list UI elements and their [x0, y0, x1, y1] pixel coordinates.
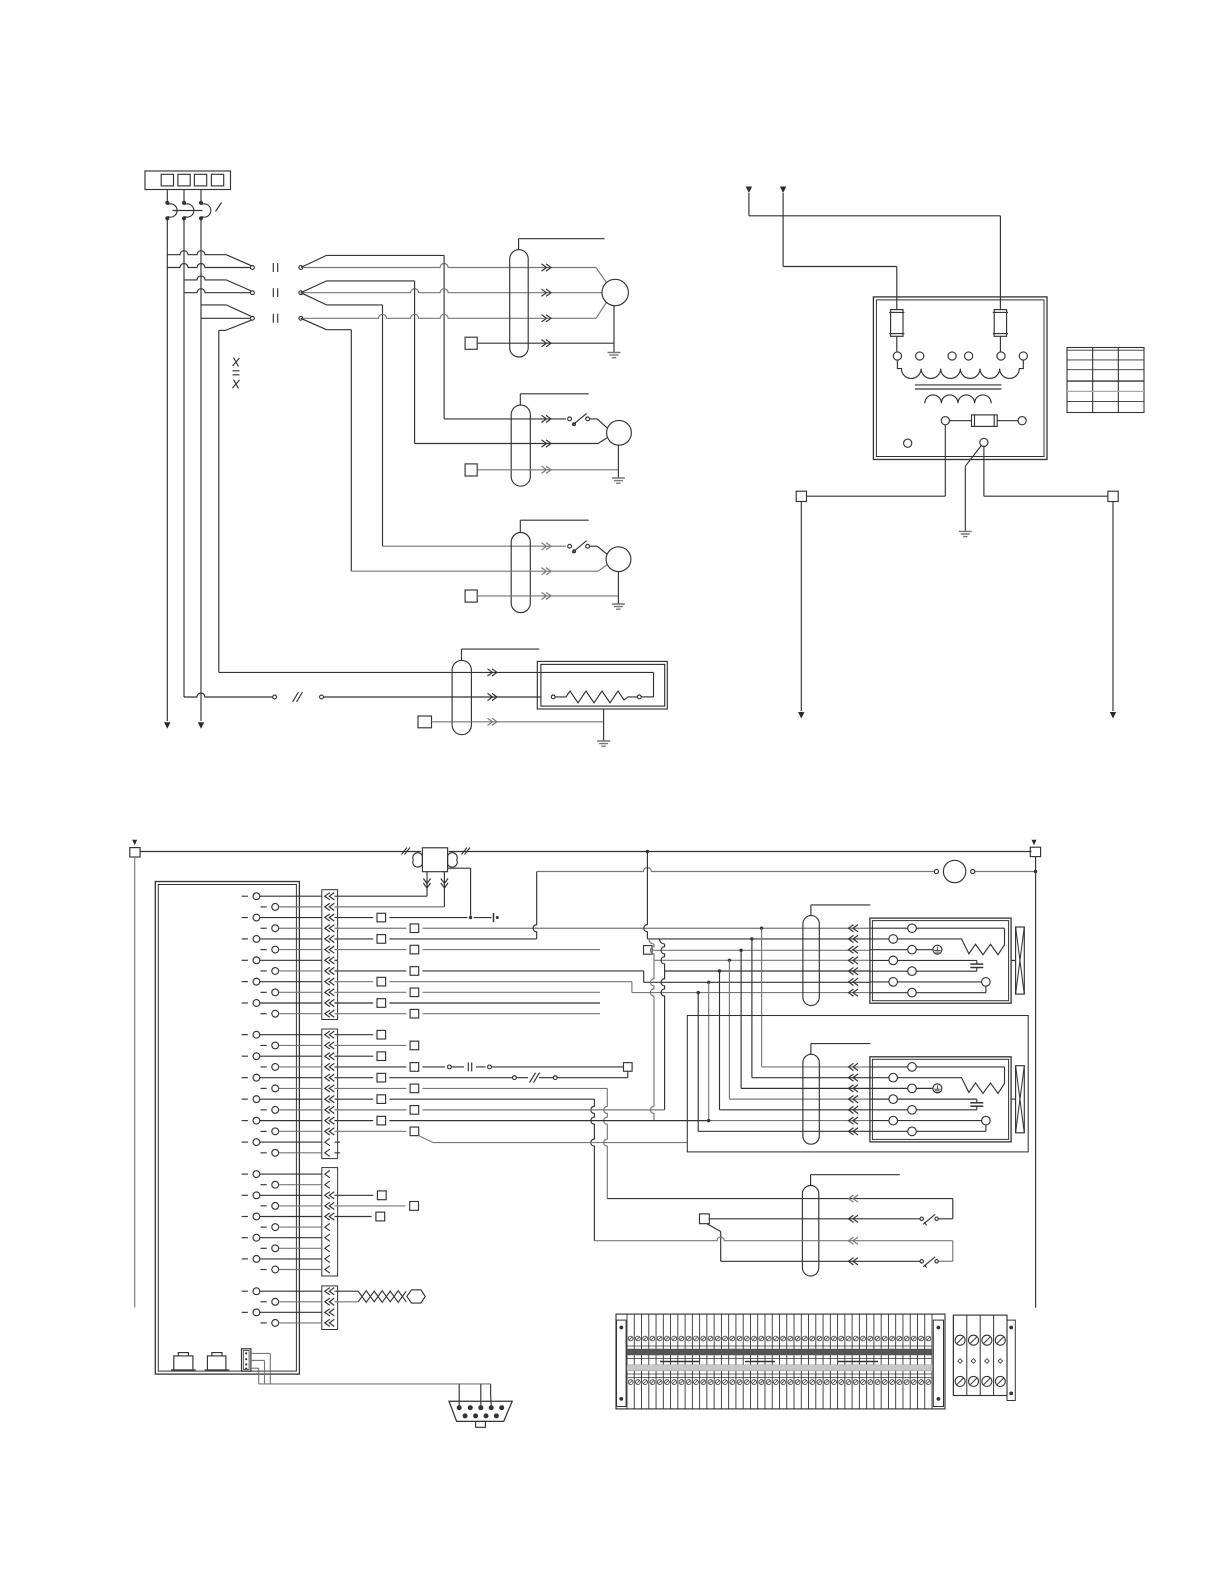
unit2 terminal r3 — [908, 1084, 917, 1093]
unit1 earth terminal — [916, 949, 933, 951]
arrow CN2 pin 12 — [325, 1149, 330, 1156]
shield unit2 — [803, 1054, 819, 1144]
wire CN1-4 to unit1 row1 — [335, 927, 407, 929]
arrow right down — [1110, 712, 1116, 719]
arrow heater line1 — [488, 669, 498, 676]
terminal CN3 pin 1 — [242, 1173, 248, 1175]
terminal CN3 pin 9 — [242, 1258, 248, 1260]
vertical feed motor2 line2 — [414, 281, 416, 444]
wire heater line2 cont — [323, 696, 541, 698]
square on CN2-2 — [335, 1044, 407, 1046]
arrow CN3 pin 2 — [325, 1181, 330, 1188]
shield drain S5 — [810, 1175, 812, 1186]
square on CN3-3 — [335, 1194, 374, 1196]
fuse F1 — [891, 310, 903, 337]
bus break mark 2 — [462, 848, 468, 855]
junction CN1-4 — [760, 927, 763, 930]
wire secondary A down — [944, 425, 946, 496]
terminal CN1 pin 4 — [261, 927, 267, 929]
wire unit1 row5 feed — [659, 939, 664, 944]
unit1 fan — [1016, 927, 1025, 994]
square on CN2-8 — [410, 1106, 419, 1115]
terminal CN2 pin 3 — [242, 1055, 248, 1057]
terminal CN1 pin 5 — [242, 938, 248, 940]
arrow CN3 pin 5 — [325, 1213, 335, 1220]
terminal CN4 pin 3 — [242, 1311, 248, 1313]
secondary terminal B — [1018, 417, 1026, 425]
vertical feed motor3 line1 — [382, 305, 384, 546]
arrow CN2 pin 2 — [325, 1042, 335, 1049]
terminal CN3 pin 10 — [261, 1269, 267, 1271]
arrow unit2 row6 — [849, 1117, 859, 1124]
terminal CN2 pin 6 — [261, 1087, 267, 1089]
unit2 terminal r6 — [889, 1116, 898, 1125]
circuit breaker Q1 pole 1 — [166, 201, 169, 204]
unit2 capacitor — [898, 1098, 977, 1100]
wire heater line1 — [219, 671, 541, 673]
unit2 resistor top wire — [916, 1066, 1004, 1068]
breaker tie bar — [173, 210, 203, 212]
arrow CN2 pin 7 — [325, 1096, 335, 1103]
wire CN1-12 — [335, 1013, 407, 1015]
unit1 terminal r1 — [908, 924, 917, 933]
wire V1 from lamp line — [533, 872, 537, 939]
circuit breaker Q1 pole 2 — [183, 201, 186, 204]
wire doorswitch row3 — [594, 1237, 952, 1241]
secondary terminal A — [941, 417, 949, 425]
ground stem heater — [603, 709, 605, 741]
arrow CN3 pin 3 — [325, 1192, 335, 1199]
wire doorswitch row2 — [709, 1218, 920, 1220]
terminal CN2 pin 12 — [261, 1152, 267, 1154]
arrow CN4 pin 1 — [325, 1288, 335, 1295]
unit2 thermostat — [898, 1120, 982, 1122]
heater box — [537, 661, 667, 709]
arrow CN2 pin 10 — [325, 1128, 335, 1135]
transformer secondary winding — [925, 395, 991, 403]
wire unit2 feed row5 — [719, 971, 721, 1110]
unit2 terminal r4 — [889, 1095, 898, 1104]
left rail — [134, 857, 136, 1307]
transformer primary taps — [893, 352, 901, 360]
arrow filter drop left — [423, 879, 430, 889]
filter drop left — [426, 872, 428, 897]
wire row2 up branch — [301, 281, 327, 293]
arrow CN2 pin 1 — [325, 1031, 335, 1038]
unit1 terminal r4 — [889, 956, 898, 965]
circuit breaker Q1 pole 3 — [200, 201, 203, 204]
motor M3 — [606, 547, 631, 572]
enclosure box unit2 — [687, 1016, 1028, 1152]
wire feed B — [782, 193, 784, 267]
unit1 row stubs — [870, 927, 907, 929]
vertical 654 lower — [650, 960, 654, 1120]
wire doorswitch row1 down — [952, 1199, 954, 1219]
DB9 pins — [457, 1405, 462, 1410]
wire CN1-3 — [335, 917, 374, 919]
connector X1 row1 — [251, 266, 255, 270]
PE wire motor3 — [477, 595, 618, 597]
RJ45 jack 1 — [174, 1356, 193, 1370]
unit2 terminal r5 — [908, 1106, 917, 1115]
arrow left down — [798, 712, 804, 719]
wire CN1-5 — [335, 938, 374, 940]
wire row1 to motor1 — [303, 264, 596, 268]
square on CN1-9 — [377, 977, 386, 986]
arrow unit1 row7 — [849, 989, 859, 996]
arrow motor1 line2 — [542, 289, 552, 296]
terminal CN3 pin 5 — [242, 1216, 248, 1218]
wire CN2-4 remote loop — [335, 1066, 407, 1068]
ground stem motor3 — [617, 572, 619, 604]
terminal CN2 pin 1 — [242, 1034, 248, 1036]
arrow motor1 line1 — [542, 264, 552, 271]
wire CN1-6 — [335, 949, 407, 951]
terminal CN1 pin 12 — [261, 1013, 267, 1015]
terminal CN3 pin 2 — [261, 1184, 267, 1186]
bus drop vertical — [644, 852, 648, 939]
terminal strip jumpers — [660, 1361, 700, 1363]
wire row3 right branch — [301, 318, 327, 329]
arrow doorswitch row3 — [849, 1237, 859, 1244]
PE wire motor1 — [477, 342, 614, 344]
junction unit1 row5 — [718, 969, 721, 972]
arrow motor3 line2 — [542, 568, 552, 575]
arrow CN4 pin 2 — [325, 1298, 335, 1305]
wire to motor2 line2 — [415, 443, 598, 445]
unit2 row stubs — [870, 1066, 907, 1068]
wire to motor3 line2 — [351, 570, 598, 572]
square on CN1-8 — [410, 967, 419, 976]
terminal CN2 pin 5 — [242, 1077, 248, 1079]
arrow unit2 row3 — [849, 1085, 859, 1092]
wire CN4-2 to pair — [335, 1301, 359, 1303]
terminal CN1 pin 10 — [261, 991, 267, 993]
arrow motor2 PE — [542, 466, 552, 473]
square on CN2-5 — [377, 1073, 386, 1082]
arrow CN1 pin 1 — [325, 893, 335, 900]
shield S1 motor1 — [510, 250, 529, 357]
controller box — [155, 882, 299, 1375]
wire TB1 to breaker poles — [166, 190, 168, 202]
terminal CN1 pin 9 — [242, 981, 248, 983]
arrow CN1 pin 9 — [325, 978, 335, 985]
terminal CN2 pin 2 — [261, 1044, 267, 1046]
arrow motor2 line2 — [542, 440, 552, 447]
ground motor1 — [608, 353, 621, 358]
unit2 earth terminal — [916, 1087, 933, 1089]
shield drain heater — [461, 649, 463, 660]
wire unit2 feed row1 — [761, 928, 763, 1067]
shield drain unit2 — [810, 1044, 812, 1055]
terminal CN3 pin 4 — [261, 1205, 267, 1207]
door switch 2 — [920, 1260, 923, 1263]
arrow motor3 line1 — [542, 543, 552, 550]
shield drain unit1 — [810, 905, 812, 916]
wire switch to motor3 — [590, 545, 598, 547]
ground motor3 — [612, 604, 625, 609]
PE square motor3 — [465, 590, 477, 602]
junction unit1 row2 — [750, 937, 753, 940]
twisted pair marker — [358, 1291, 406, 1302]
ground transformer — [959, 531, 972, 536]
junction CN1-3 — [469, 916, 472, 919]
arrow motor3 PE — [542, 592, 552, 599]
vertical CN2-6 down — [604, 1088, 608, 1198]
arrow CN1 pin 7 — [325, 957, 335, 964]
square on CN1-4 — [410, 924, 419, 933]
arrow CN3 pin 1 — [325, 1171, 330, 1178]
square on CN2-6 — [410, 1084, 419, 1093]
shield drain motor3 — [519, 520, 521, 532]
unit1 terminal r2 — [889, 935, 898, 944]
terminal CN3 pin 8 — [261, 1247, 267, 1249]
wire CN2-8 — [335, 1109, 407, 1111]
terminal CN4 pin 1 — [242, 1290, 248, 1292]
tap selection table — [1067, 348, 1144, 413]
terminal strip slats — [626, 1314, 628, 1409]
bus break mark 1 — [402, 848, 408, 855]
unit1 terminal r5 — [908, 967, 917, 976]
wire CN1-3 to earth — [474, 917, 492, 919]
unit2 heating resistor — [898, 1067, 1005, 1094]
unit2 terminal r7 — [908, 1127, 917, 1136]
wire CN4-1 to pair — [335, 1290, 359, 1292]
unit2 fan — [1016, 1066, 1025, 1133]
terminal CN1 pin 1 — [242, 895, 248, 897]
unit1 terminal r7 — [908, 988, 917, 997]
filter drop right — [443, 872, 445, 907]
square on CN2-4 — [410, 1063, 419, 1072]
connector J4 — [242, 1349, 251, 1371]
wire row3 to motor1 — [303, 314, 596, 318]
rail L4 vertical — [218, 330, 220, 672]
square on CN1-10 — [410, 988, 419, 997]
terminal CN1 pin 6 — [261, 949, 267, 951]
arrow heater line2 — [488, 693, 498, 700]
junction unit1 row3 — [739, 949, 742, 952]
indicator lamp — [943, 860, 965, 882]
wire CN2-10 — [335, 1130, 407, 1132]
unit1 capacitor — [898, 959, 977, 961]
arrow CN1 pin 10 — [325, 989, 335, 996]
arrow doorswitch row2 — [849, 1215, 859, 1222]
unit2 terminal r2 — [889, 1073, 898, 1082]
terminal CN2 pin 9 — [242, 1120, 248, 1122]
arrow unit2 row4 — [849, 1096, 859, 1103]
heater wire internal — [541, 671, 654, 673]
connector strip CN4 — [322, 1286, 338, 1330]
arrow CN2 pin 3 — [325, 1053, 335, 1060]
wire row2 direct — [184, 289, 251, 293]
wire CN2-9 to unit2 row6 — [335, 1120, 374, 1122]
wire CN1-8 to unit1 row6 — [335, 970, 407, 972]
lamp circles — [934, 869, 938, 873]
shield S2 motor2 — [511, 405, 530, 486]
terminal block 4-pole — [953, 1315, 1007, 1395]
arrow doorswitch row4 — [849, 1258, 859, 1265]
terminal CN2 pin 8 — [261, 1109, 267, 1111]
wire remote return — [627, 1071, 629, 1077]
vertical feed motor2 line1 — [443, 255, 445, 419]
ground heater — [597, 741, 610, 746]
arrow unit1 row2 — [849, 935, 859, 942]
wire square to row4 — [707, 1224, 721, 1232]
arrow unit1 row1 — [849, 925, 859, 932]
right rail — [1035, 857, 1037, 1308]
arrow CN3 pin 4 — [325, 1202, 335, 1209]
wires J4 to DB9 — [251, 1352, 270, 1354]
shield unit1 — [803, 916, 819, 1006]
terminal CN1 pin 3 — [242, 917, 248, 919]
arrow CN1 pin 5 — [325, 935, 335, 942]
square on CN2-1 — [335, 1034, 374, 1036]
transformer box T1 — [873, 297, 1047, 460]
PE wire motor2 — [477, 469, 618, 471]
arrow filter drop right — [441, 879, 448, 889]
neutral terminal — [980, 438, 988, 446]
shield drain motor1 — [518, 239, 520, 250]
arrow CN2 pin 6 — [325, 1085, 335, 1092]
square on CN1-3 — [377, 913, 386, 922]
PE square motor1 — [465, 337, 477, 349]
motor M2 — [607, 420, 632, 445]
junction CN2-9 — [707, 1119, 710, 1122]
wire row2 to motor1 — [303, 289, 602, 293]
junction unit1 row4 — [728, 959, 731, 962]
arrow CN3 pin 8 — [325, 1245, 330, 1252]
terminal CN3 pin 7 — [242, 1237, 248, 1239]
arrow CN2 pin 9 — [325, 1117, 335, 1124]
arrow CN3 pin 9 — [325, 1255, 330, 1262]
square on CN3-4 — [335, 1205, 406, 1207]
wire neutral down — [983, 447, 985, 497]
terminal strip mid lines — [627, 1345, 932, 1347]
terminal CN2 pin 7 — [242, 1098, 248, 1100]
arrow feed A — [746, 187, 752, 194]
terminal CN1 pin 8 — [261, 970, 267, 972]
arrow heater PE — [488, 718, 498, 725]
wire row1 direct — [167, 264, 250, 268]
arrow motor1 line3 — [542, 315, 552, 322]
wire CN2-7 to doorswitch — [335, 1098, 374, 1100]
wire CN2-6 to doorswitch — [335, 1087, 407, 1089]
terminal CN1 pin 11 — [242, 1002, 248, 1004]
arrow CN1 pin 4 — [325, 925, 335, 932]
arrow unit2 row1 — [849, 1063, 859, 1070]
DB9 pin wires — [458, 1384, 460, 1406]
ground motor2 — [612, 478, 625, 483]
motor M1 — [602, 279, 628, 305]
terminal CN4 pin 4 — [261, 1322, 267, 1324]
line filter FL1 — [422, 848, 447, 872]
connector strip CN3 — [322, 1168, 338, 1276]
arrow above left square — [132, 840, 137, 846]
shield S5 — [802, 1186, 818, 1277]
unit1 heating resistor — [898, 928, 1005, 955]
terminal CN1 pin 7 — [242, 959, 248, 961]
arrow CN3 pin 6 — [325, 1224, 330, 1231]
wire row3 upper branch — [201, 304, 226, 306]
wire CN1-9 to unit1 row7 — [335, 981, 374, 983]
wire right square down — [1112, 502, 1114, 712]
arrow unit1 row6 — [849, 978, 859, 985]
terminal CN1 pin 2 — [261, 906, 267, 908]
breaker actuator slash — [216, 203, 222, 212]
arrow CN1 pin 6 — [325, 946, 335, 953]
fuse F2 — [994, 310, 1006, 337]
arrow CN4 pin 4 — [325, 1319, 335, 1326]
square on CN1-6 — [410, 945, 419, 954]
arrow unit1 row4 — [849, 957, 859, 964]
shield S4 heater — [452, 660, 471, 734]
unit1 terminal r3 — [908, 945, 917, 954]
wire unit2 feed row2 — [751, 939, 753, 1078]
arrow unit1 row3 — [849, 946, 859, 953]
connector X1 row2 — [251, 291, 255, 295]
wire row2 down branch — [301, 293, 327, 305]
ground stem motor2 — [617, 445, 619, 477]
arrow CN1 pin 12 — [325, 1010, 335, 1017]
wire CN2-12 stub — [335, 1152, 341, 1154]
rail L3 vertical — [200, 218, 202, 721]
wire CN1-10 — [335, 991, 407, 993]
wire row1 right branch — [301, 255, 327, 267]
arrow CN4 pin 3 — [325, 1309, 335, 1316]
thermal switch motor3 — [568, 544, 572, 548]
square doorswitch — [700, 1214, 710, 1224]
wire feed A — [748, 193, 750, 216]
connector strip CN2 — [322, 1029, 338, 1159]
unit1 box — [870, 918, 1011, 1003]
arrow CN3 pin 10 — [325, 1266, 330, 1273]
wire heater line2 — [184, 693, 273, 697]
unit1 terminal r6 — [889, 978, 898, 987]
square connector left — [796, 491, 806, 501]
wire row3 direct — [201, 317, 250, 319]
wire CN1-11 — [335, 1002, 374, 1004]
arrow CN1 pin 11 — [325, 999, 335, 1006]
wire to motor3 line1 — [383, 545, 567, 547]
terminal strip body — [616, 1314, 945, 1409]
ground stem motor1 — [613, 306, 615, 352]
wire unit2 feed row4 — [728, 960, 730, 1099]
arrow doorswitch row1 — [849, 1195, 859, 1202]
wire switch to motor2 — [590, 418, 598, 420]
door switch 1 — [920, 1217, 923, 1220]
terminal CN3 pin 3 — [242, 1194, 248, 1196]
unit2 box — [870, 1057, 1011, 1142]
terminal strip bus bar — [627, 1349, 932, 1355]
arrow motor1 PE — [542, 340, 552, 347]
wire CN1-1 to filter — [335, 895, 428, 897]
square on CN2-7 — [377, 1095, 386, 1104]
wire to motor2 line1 — [444, 418, 566, 420]
arrow CN2 pin 11 — [325, 1139, 330, 1146]
arrow unit2 row5 — [849, 1106, 859, 1113]
arrow CN1 pin 2 — [325, 903, 335, 910]
transformer core — [915, 384, 1002, 386]
unit2 terminal r1 — [908, 1063, 917, 1072]
square connector right — [1108, 491, 1118, 501]
junction CN1-9 — [697, 991, 700, 994]
wire CN2-5 segment — [335, 1077, 374, 1079]
vertical CN2-7 down — [591, 1099, 595, 1241]
arrow CN2 pin 8 — [325, 1106, 335, 1113]
PE square heater — [418, 716, 432, 728]
PE wire heater — [432, 721, 604, 723]
filter exit wire — [448, 867, 471, 869]
